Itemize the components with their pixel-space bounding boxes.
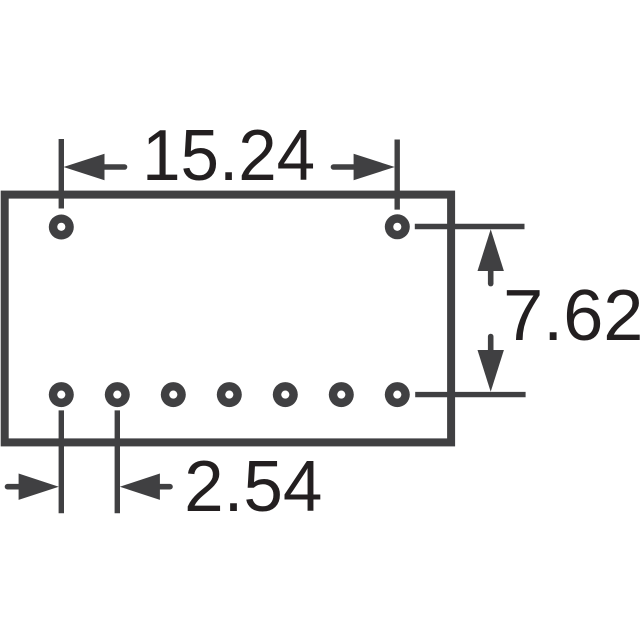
relay body outline <box>5 195 451 443</box>
7.62 down arrow <box>478 337 504 392</box>
hole P8 top-left <box>49 215 74 240</box>
hole P9 top-right <box>385 214 410 239</box>
extension line bottom of 7.62 dimension <box>415 392 525 397</box>
svg-text:7.62: 7.62 <box>503 276 640 356</box>
15.24 right arrow <box>334 154 395 180</box>
hole P6 bottom row <box>329 382 354 407</box>
extension line left of 2.54 dimension <box>59 410 64 513</box>
2.54 left arrow <box>8 474 59 500</box>
hole P4 bottom row <box>217 382 242 407</box>
hole P7 bottom row <box>385 382 410 407</box>
2.54 right arrow <box>120 474 170 500</box>
extension line left of 15.24 dimension <box>59 139 64 209</box>
extension line top of 7.62 dimension <box>415 224 525 229</box>
extension line right of 15.24 dimension <box>395 140 400 210</box>
hole P5 bottom row <box>273 382 298 407</box>
7.62 up arrow <box>478 229 504 283</box>
svg-text:15.24: 15.24 <box>142 116 315 196</box>
hole P1 bottom row <box>49 382 74 407</box>
svg-text:2.54: 2.54 <box>184 447 322 527</box>
extension line right of 2.54 dimension <box>115 410 120 513</box>
15.24 left arrow <box>64 154 125 180</box>
hole P2 bottom row <box>105 382 130 407</box>
hole P3 bottom row <box>161 382 186 407</box>
